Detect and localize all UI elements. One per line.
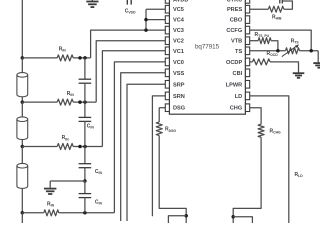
wire C_IN1 to row2 [84, 83, 86, 102]
thermistor R_TS [286, 48, 300, 54]
pin box VTB [245, 37, 249, 45]
ground G4 (thermistor, clipped at edge) [313, 63, 320, 68]
resistor R_IN4 [44, 210, 59, 216]
node row2 b [83, 100, 87, 104]
svg-text:DSG: DSG [173, 106, 185, 112]
node TS / R_TS_PU junction [276, 49, 280, 53]
node CHG FET gate [231, 215, 235, 219]
pin box CBO [245, 16, 249, 24]
pin box TS [245, 47, 249, 55]
wire CCFG to TS node [250, 30, 311, 51]
wire PRES pin to R_HIB [250, 8, 269, 10]
wire VTB pin to R_TS_PU [250, 40, 259, 42]
wire row1 to C_IN1 [84, 58, 86, 79]
pin box CCFG [245, 26, 249, 34]
resistor R_IN3 [57, 144, 73, 150]
wire mid node to C_IN4 [84, 181, 86, 194]
node TS / CCFG junction [309, 49, 313, 53]
node row1 b [83, 56, 87, 60]
capacitor C_IN4 [79, 194, 92, 198]
op-amp / IC U1 bq77915 body [169, 0, 245, 114]
ground G1 (C_VDD, cut off at top) [91, 0, 93, 1]
resistor R_IN2 [57, 99, 73, 105]
pin box CTRC [245, 0, 249, 3]
node row1 a [78, 56, 82, 60]
wire R_TS to ground G4 [300, 50, 319, 52]
node tap1 [21, 56, 25, 60]
svg-text:TS: TS [235, 49, 242, 55]
pin box VC4 [165, 16, 169, 24]
wire tap1 to cell1 [21, 58, 23, 73]
resistor R_DSG [156, 122, 162, 136]
pin box LPWR [245, 81, 249, 89]
wire R_HIB to C_HIB [283, 1, 293, 9]
wire VC3 bus [91, 30, 146, 58]
node tap2 [21, 100, 25, 104]
ground stub G4 [317, 51, 319, 63]
resistor R_IN1 [57, 55, 73, 61]
ground G3 (OCDP) [293, 73, 305, 78]
wire cell1 to tap2 [21, 97, 23, 102]
wire LD pin to R_LD rail [250, 96, 289, 223]
node row3 b [83, 145, 87, 149]
wire VC0 bus [114, 62, 165, 213]
ground stub G2 [49, 181, 51, 188]
node row3 a [78, 145, 82, 149]
wire VSS bus [121, 73, 166, 221]
pin box PRES [245, 5, 249, 13]
svg-text:SRN: SRN [173, 94, 185, 100]
wire C_IN2 to row3 [84, 121, 86, 146]
resistor R_OCD [253, 59, 271, 65]
svg-text:CCFG: CCFG [226, 28, 242, 34]
wire stack bottom (PACK-) [21, 213, 23, 223]
wire DSG FET gate-source stub [168, 216, 186, 223]
wire R_OCD to ground G3 [270, 62, 299, 73]
svg-text:VC1: VC1 [173, 49, 184, 55]
node VC3 junction [144, 28, 148, 32]
svg-text:PRES: PRES [227, 7, 243, 13]
wire cell2 to tap3 [21, 140, 23, 147]
battery cell B2 [17, 117, 28, 140]
node tap4 [21, 211, 25, 215]
svg-text:CBO: CBO [230, 18, 243, 24]
svg-text:CHG: CHG [230, 106, 242, 112]
pin box DSG [165, 104, 169, 112]
pin box VSS [165, 69, 169, 77]
wire CHG pin to R_CHG [250, 108, 261, 125]
node tap3 [21, 145, 25, 149]
wire R_IN2 to VC2 bus [73, 101, 96, 103]
capacitor C_VDD (cut off at top) [127, 0, 131, 5]
svg-text:bq77915: bq77915 [195, 44, 220, 51]
svg-text:VC2: VC2 [173, 39, 184, 45]
pin box CBI [245, 69, 249, 77]
pin box VC1 [165, 47, 169, 55]
wire VC2 bus [96, 41, 165, 102]
svg-text:LD: LD [235, 94, 242, 100]
svg-text:CTRC: CTRC [227, 0, 243, 3]
R_TS arrowhead [295, 44, 299, 48]
resistor R_TS_PU [258, 38, 271, 44]
wire CHG FET gate-source stub [233, 217, 252, 223]
wire SRN bus [152, 96, 165, 216]
wire tap2 to R_IN2 [22, 101, 57, 103]
svg-text:VSS: VSS [173, 71, 184, 77]
wire SRP bus [127, 84, 165, 221]
resistor R_CHG [258, 124, 264, 137]
svg-text:VC0: VC0 [173, 60, 184, 66]
wire R_IN1 to VC3 bus [73, 57, 90, 59]
svg-text:SRP: SRP [173, 82, 185, 88]
wire R_IN3 to VC1 bus [73, 146, 102, 148]
capacitor C_IN1 [79, 79, 92, 83]
battery cell B3 [17, 163, 28, 188]
capacitor C_HIB (cut off at top) [280, 0, 283, 4]
wire R_DSG to DSG FET gate [159, 136, 186, 224]
wire BAT+ stack top [21, 0, 23, 58]
wire TS pin to R_TS [250, 50, 286, 52]
wire R_CHG to CHG FET gate [233, 137, 261, 223]
ground G2 (input filter) [44, 189, 56, 194]
wire VC5/VC4/VC3 tie bus [145, 9, 147, 30]
node C_IN midpoint [83, 179, 87, 183]
capacitor C_IN2 [79, 117, 92, 121]
capacitor C_IN3 [79, 164, 92, 168]
wire tap4 to R_IN4 [22, 212, 44, 214]
node row2 a [78, 100, 82, 104]
svg-text:CBI: CBI [233, 71, 243, 77]
wire tap1 to R_IN1 [22, 57, 57, 59]
svg-text:VC4: VC4 [173, 18, 185, 24]
pin box VC5 [165, 5, 169, 13]
battery cell B1 [17, 73, 28, 97]
pin box AVDD [165, 0, 169, 3]
pin box VC0 [165, 58, 169, 66]
wire mid node to ground G2 [50, 180, 85, 182]
node VC4 junction [144, 18, 148, 22]
wire OCDP pin to R_OCD [250, 61, 253, 63]
wire R_TS_PU to TS line [271, 41, 278, 51]
wire tap3 to R_IN3 [22, 146, 57, 148]
wire cell3 to tap4 [21, 188, 23, 212]
svg-text:AVDD: AVDD [173, 0, 188, 3]
wire C_IN3 to mid node [84, 168, 86, 181]
wire R_IN4 to VC0 bus [59, 212, 115, 214]
pin box CHG [245, 104, 249, 112]
svg-text:LPWR: LPWR [226, 82, 242, 88]
pin box OCDP [245, 58, 249, 66]
wire bus to VC4 pin [146, 19, 165, 21]
wire bus to VC5 pin [146, 8, 165, 10]
wire to R_DSG top [158, 108, 160, 122]
node DSG FET gate [184, 214, 188, 218]
pin box LD [245, 92, 249, 100]
wire tap2 to cell2 [21, 102, 23, 117]
wire row3 to C_IN3 [84, 147, 86, 164]
pin box VC2 [165, 37, 169, 45]
svg-text:VC5: VC5 [173, 7, 184, 13]
svg-text:VC3: VC3 [173, 28, 184, 34]
svg-text:OCDP: OCDP [226, 60, 242, 66]
wire DSG pin to R_DSG [159, 107, 165, 109]
pin box SRN [165, 92, 169, 100]
pin box SRP [165, 81, 169, 89]
node row4 [83, 211, 87, 215]
R_TS arrow shaft [282, 46, 297, 57]
wire VC1 bus [102, 51, 165, 147]
wire bus to VC3 pin [146, 29, 165, 31]
svg-text:VTB: VTB [231, 39, 242, 45]
pin box VC3 [165, 26, 169, 34]
wire tap3 to cell3 [21, 147, 23, 164]
resistor R_HIB [268, 6, 283, 12]
wire C_IN4 to row4 [84, 198, 86, 213]
wire row2 to C_IN2 [84, 102, 86, 117]
